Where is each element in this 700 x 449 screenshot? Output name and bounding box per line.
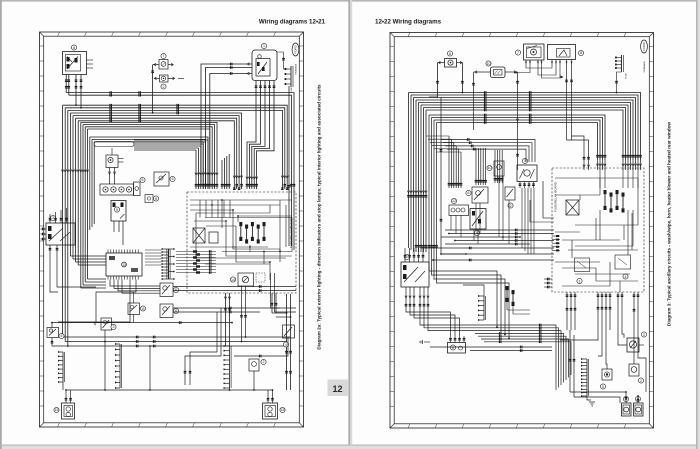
svg-text:12•22 Wiring diagrams: 12•22 Wiring diagrams (375, 19, 442, 26)
svg-text:6: 6 (468, 191, 470, 195)
svg-text:Wiring diagrams 12•21: Wiring diagrams 12•21 (259, 19, 326, 26)
svg-text:11: 11 (141, 307, 145, 311)
svg-text:3: 3 (52, 216, 54, 220)
component 3 column switch (left) (41, 208, 76, 252)
svg-text:3: 3 (113, 325, 115, 329)
component 9 wiper delay unit (470, 209, 486, 236)
wires from fuse box to bottom components (560, 292, 627, 369)
small relay right of cluster (145, 195, 159, 203)
svg-text:10: 10 (488, 166, 492, 170)
svg-text:12: 12 (332, 384, 342, 394)
wire bus band inner loops (80, 122, 219, 288)
lower horizontal bundle right page (430, 332, 571, 382)
fuse strip connector right page (615, 55, 627, 93)
left diagram border frame (40, 32, 304, 427)
component 5 stop lamp switch (47, 322, 69, 347)
svg-text:1: 1 (263, 44, 265, 48)
component 8 headlamp unit (top left) (63, 45, 94, 75)
component 3b relay (lower middle) (93, 316, 116, 342)
wires feeding heated rear window (633, 292, 646, 392)
interior lamp component (below fuse box) (230, 273, 265, 286)
heated rear window element component (629, 364, 644, 383)
svg-text:Diagram 3: Typical ancillary c: Diagram 3: Typical ancillary circuits - … (667, 122, 672, 326)
svg-text:14: 14 (231, 278, 235, 282)
svg-text:5: 5 (602, 385, 604, 389)
svg-text:4: 4 (625, 275, 627, 279)
twin washer motors bottom right (622, 391, 644, 416)
component 6 hazard switch (154, 172, 175, 186)
wires exiting fuse box bottom (224, 293, 290, 346)
component 2 intermittent wipe relay (505, 187, 515, 208)
wires lower right region connecting down (184, 308, 221, 385)
connector block column right of strip (176, 250, 216, 274)
svg-text:12: 12 (452, 199, 456, 203)
washer pump motor component (bottom right) (627, 332, 647, 352)
left page rotated caption: Diagram 2a (317, 84, 322, 350)
wire bus band left vertical drops (61, 105, 290, 347)
svg-text:2: 2 (643, 333, 645, 337)
svg-text:8: 8 (155, 197, 157, 201)
component 10 relay (mid left) (106, 148, 124, 184)
inline fuses mid right page (506, 286, 531, 314)
rear lamp cluster bottom right (263, 389, 286, 419)
small relay component bottom right (600, 369, 612, 389)
svg-text:9: 9 (116, 208, 118, 212)
wires below central module (58, 280, 160, 323)
svg-text:8: 8 (580, 51, 582, 55)
oval maker stamp left page (292, 43, 299, 75)
wires from component 8 pins (65, 75, 82, 109)
mid bundle to components row 1 (426, 136, 462, 188)
wires below interior lamp (240, 286, 247, 342)
central electronic module with pins (106, 250, 142, 280)
component bottom centre small (249, 359, 266, 391)
horizontal runs into right fuse box (421, 181, 555, 261)
svg-text:2: 2 (163, 85, 165, 89)
header left page: Wiring diagrams 12-21 (259, 19, 326, 26)
small closed loop rectangle (94, 142, 134, 147)
wires left of component 1 to column (201, 63, 252, 184)
wire bus band top pair (66, 91, 295, 250)
wire from boot lamp switch to comb (234, 338, 288, 357)
svg-text:FUSE: FUSE (291, 87, 293, 93)
svg-text:8: 8 (73, 46, 75, 50)
component 12 instrument cluster lamps (100, 177, 145, 195)
ground symbol left of blower motor (420, 340, 430, 344)
header right page: 12-22 Wiring diagrams (375, 19, 442, 26)
lower vertical pair to stop lamps (285, 294, 292, 390)
svg-text:GRANADA: GRANADA (295, 63, 298, 74)
comb strip bottom centre (224, 345, 232, 391)
wire bus band main nested loops (63, 104, 289, 190)
component 1 ignition switch assembly (top right) (252, 43, 288, 80)
component 6a switch (right mid) (160, 283, 179, 297)
oval maker stamp right page (641, 40, 648, 72)
right bus verticals into fuse box top (554, 160, 642, 170)
middle vertical bundle into fuse box (134, 140, 231, 189)
svg-text:15: 15 (281, 408, 285, 412)
main harness connector strip (mid right) (162, 248, 175, 280)
svg-text:FORD: FORD (294, 44, 298, 53)
mid horizontal runs below components (441, 229, 554, 246)
right page bus inner loops (428, 114, 607, 340)
page tab 12 (328, 380, 349, 397)
component 12 wash wipe switch (449, 198, 469, 215)
long horizontal wires lower left area (52, 321, 233, 324)
rear lamp cluster bottom left (54, 389, 75, 419)
svg-text:6: 6 (142, 178, 144, 182)
svg-text:2: 2 (640, 379, 642, 383)
component 10 relay (right page mid) (487, 161, 504, 176)
wires below wiper column switch (405, 287, 561, 390)
bottom earth bus wire (66, 341, 273, 391)
component 6 heater switch (mid) (466, 187, 488, 203)
vertical pair lower middle right page (569, 330, 626, 403)
svg-text:10: 10 (487, 62, 491, 66)
component 7 lighting switch (top right) (515, 44, 544, 64)
fuse relay board dashed box left page (187, 192, 296, 293)
svg-text:Diagram 2a: Typical exterior l: Diagram 2a: Typical exterior lighting - … (317, 84, 322, 350)
component 4 boot lamp switch (283, 325, 295, 347)
mid bundle to components row 2 (475, 148, 504, 185)
right page main bus nested loops (409, 91, 642, 160)
fuse strip connector (top right) (285, 66, 293, 93)
svg-text:6: 6 (452, 346, 454, 350)
component 2 courtesy switch (below lamp) (154, 75, 184, 89)
right page left bus vertical drops (407, 93, 427, 253)
svg-text:7: 7 (517, 51, 519, 55)
harness comb strip bottom right page (581, 358, 595, 406)
svg-text:6: 6 (172, 177, 174, 181)
component 6b switch (right mid lower) (160, 304, 179, 318)
wire inner small loops (90, 137, 210, 230)
wires exiting right fuse box bottom (566, 292, 577, 330)
svg-text:FUSE/RELAY BOARD: FUSE/RELAY BOARD (554, 181, 558, 212)
component 8 wiper switch assembly (top right) (548, 45, 584, 64)
component 3 heater blower switch (mid right) (517, 158, 537, 188)
wires from column switch down (50, 252, 96, 292)
right diagram border frame (390, 33, 654, 429)
wires from switches to right (173, 285, 296, 313)
nested elbow wires lower mid right page (421, 344, 506, 394)
wire from fuse strip down into fuse box (288, 86, 291, 246)
component 6 heater blower motor (448, 336, 466, 353)
connector comb mid right page (463, 285, 486, 321)
wires from left bus to wiper column switch (405, 248, 423, 252)
wires from wiper motor down to bus (472, 72, 519, 170)
svg-text:4: 4 (285, 343, 287, 347)
wire from washer pump down (429, 63, 464, 97)
fuse relay board dashed box right page (544, 168, 644, 292)
svg-text:15: 15 (55, 408, 59, 412)
component 6 washer pump (top) (438, 51, 463, 67)
svg-text:1: 1 (579, 279, 581, 283)
ground comb strip bottom left (58, 351, 65, 390)
extra band lines feeding blower switch (441, 138, 535, 162)
svg-text:6: 6 (449, 52, 451, 56)
wires upper mid connectors right page (440, 97, 467, 255)
svg-text:7: 7 (163, 54, 165, 58)
component 9 pin wires down (246, 81, 276, 190)
right page rotated caption: Diagram 3 (667, 122, 672, 326)
comb connector lower left centre (115, 343, 122, 389)
wire from component 7 down to bus (151, 65, 154, 114)
component 9 flasher unit body (mid left) (111, 201, 126, 246)
component 2 wiper column switch (lower left) (401, 252, 429, 287)
component 7 interior lamp (top middle) (153, 53, 174, 69)
svg-text:2: 2 (263, 360, 265, 364)
svg-text:FORD: FORD (642, 41, 646, 50)
svg-text:2: 2 (510, 204, 512, 208)
svg-text:13: 13 (122, 263, 126, 267)
svg-text:FUSE: FUSE (626, 73, 628, 79)
component 10 wiper motor (top) (474, 61, 518, 78)
svg-text:5: 5 (61, 334, 63, 338)
svg-text:GRANADA: GRANADA (643, 61, 646, 72)
wires from connector strip left (145, 250, 162, 265)
svg-text:6: 6 (175, 309, 177, 313)
woven wires below switch assemblies (514, 64, 590, 171)
wires from component row down to runs (451, 176, 534, 254)
wires mid right vertical pair (271, 273, 297, 312)
component 11 relay (lower middle) (128, 292, 146, 322)
